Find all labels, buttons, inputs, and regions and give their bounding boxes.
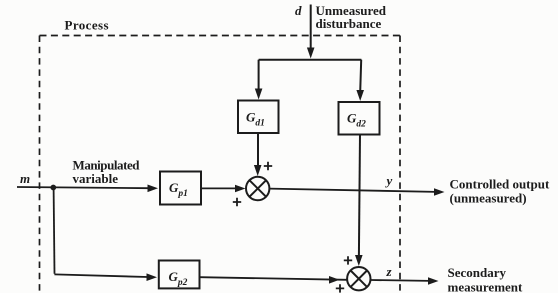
arrowhead m into Gp1 — [148, 185, 159, 193]
wire m input line — [17, 187, 149, 188]
plus sign sum1 left — [233, 198, 241, 206]
arrowhead branch into Gp2 — [147, 273, 158, 281]
svg-text:z: z — [386, 264, 393, 279]
block Gp2 — [159, 261, 200, 289]
wire m branch down — [53, 188, 56, 274]
junction dot m branch — [50, 185, 56, 191]
svg-text:m: m — [20, 171, 30, 186]
arrowhead into Gd2 — [356, 90, 364, 101]
svg-text:measurement: measurement — [448, 280, 524, 293]
wire sum 1 to y output — [270, 189, 436, 192]
wire d input vertical — [310, 5, 312, 50]
wire split bar right drop to Gd2 — [360, 60, 361, 92]
summing junction 2 X — [351, 271, 367, 287]
plus sign sum1 top — [264, 162, 272, 170]
arrowhead Gp1 into sum 1 — [235, 185, 246, 193]
svg-text:d: d — [295, 3, 302, 18]
block Gp1 — [160, 172, 201, 205]
wire Gp2 to sum 2 — [200, 277, 347, 280]
summing junction 2 — [347, 267, 370, 290]
process dashed box left edge — [39, 36, 41, 293]
svg-text:y: y — [385, 173, 393, 188]
plus sign sum2 top — [344, 256, 352, 264]
svg-text:variable: variable — [73, 171, 119, 186]
arrowhead y output — [434, 188, 445, 196]
svg-text:Secondary: Secondary — [448, 265, 507, 280]
wire Gd2 output crossing y line to sum 2 — [359, 135, 360, 257]
arrowhead z output — [428, 277, 439, 285]
svg-text:Process: Process — [65, 18, 109, 33]
arrowhead into Gd1 — [255, 89, 263, 100]
block Gd2 — [339, 102, 380, 135]
summing junction 1 X — [250, 180, 267, 196]
wire split bar left drop to Gd1 — [258, 60, 260, 90]
wire Gd1 output to sum 1 — [257, 134, 259, 167]
svg-text:Controlled output: Controlled output — [450, 177, 550, 192]
wire sum 2 to z output — [371, 279, 430, 282]
process dashed box right edge — [399, 36, 401, 293]
arrowhead Gd2 into sum 2 — [355, 255, 363, 266]
wire disturbance split bar — [259, 59, 362, 61]
svg-text:disturbance: disturbance — [316, 16, 382, 31]
summing junction 1 — [246, 177, 269, 200]
arrowhead Gp2 into sum 2 — [329, 276, 340, 284]
arrowhead Gd1 into sum 1 — [254, 165, 262, 176]
wire Gp1 to sum 1 — [201, 187, 238, 189]
svg-text:(unmeasured): (unmeasured) — [450, 191, 527, 206]
arrowhead d into split bar — [307, 48, 315, 59]
plus sign sum2 left — [336, 284, 344, 292]
wire m branch to Gp2 — [54, 274, 148, 277]
block Gd1 — [238, 101, 279, 134]
process dashed box top edge — [40, 35, 401, 37]
